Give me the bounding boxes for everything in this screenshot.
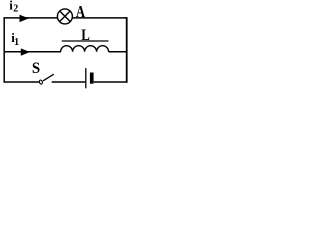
svg-text:1: 1 — [14, 37, 19, 48]
svg-text:S: S — [32, 60, 40, 77]
svg-text:2: 2 — [13, 4, 18, 15]
svg-text:A: A — [76, 2, 86, 21]
svg-text:L: L — [81, 27, 90, 44]
